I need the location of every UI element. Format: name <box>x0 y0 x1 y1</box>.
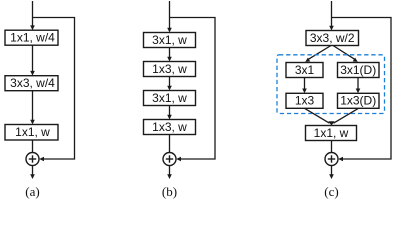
box 1x1, w (c) <box>306 126 357 141</box>
svg-text:(b): (b) <box>162 184 177 199</box>
wire merge right <box>334 108 359 123</box>
wire c-add <box>331 141 333 153</box>
box 3x3, w/4 <box>5 76 58 91</box>
svg-text:3x1: 3x1 <box>295 63 315 77</box>
wire output (a) <box>32 166 34 175</box>
box 1x3(D) <box>338 93 380 108</box>
wire skip connection (c) <box>332 18 391 160</box>
box 1x1, w <box>5 125 58 141</box>
wire a3-add <box>32 140 34 153</box>
box 3x1, w (third) <box>144 91 196 106</box>
wire c-right column <box>357 78 359 90</box>
box 1x3 <box>286 93 323 108</box>
wire input (c) <box>331 1 333 27</box>
svg-text:1x3: 1x3 <box>295 94 315 108</box>
svg-text:3x1, w: 3x1, w <box>152 33 187 47</box>
wire output (b) <box>169 166 171 175</box>
svg-text:1x3, w: 1x3, w <box>152 62 187 76</box>
svg-text:(a): (a) <box>25 184 39 199</box>
box 1x3, w (fourth) <box>144 120 196 135</box>
svg-text:3x1(D): 3x1(D) <box>340 63 376 77</box>
svg-text:1x3, w: 1x3, w <box>152 120 187 134</box>
wire split right <box>333 46 356 60</box>
wire b4-add <box>169 135 171 153</box>
box 1x1, w/4 <box>5 30 58 45</box>
svg-text:1x1, w: 1x1, w <box>15 125 50 139</box>
svg-text:3x3, w/2: 3x3, w/2 <box>310 31 355 45</box>
box 3x1 <box>286 63 323 78</box>
wire input (b) <box>169 1 171 29</box>
wire b2-b3 <box>169 77 171 88</box>
wire a1-a2 <box>32 45 34 72</box>
svg-text:(c): (c) <box>324 184 338 199</box>
wire a2-a3 <box>32 91 34 121</box>
box 3x1, w (first) <box>144 33 196 48</box>
wire split left <box>308 46 332 60</box>
adder (a) <box>26 153 39 166</box>
wire skip connection (a) <box>33 18 75 160</box>
wire b1-b2 <box>169 48 171 59</box>
svg-text:3x1, w: 3x1, w <box>152 91 187 105</box>
svg-text:1x3(D): 1x3(D) <box>340 94 376 108</box>
svg-text:1x1, w/4: 1x1, w/4 <box>10 31 55 45</box>
wire b3-b4 <box>169 106 171 117</box>
svg-text:3x3, w/4: 3x3, w/4 <box>10 76 55 90</box>
adder (c) <box>325 153 338 166</box>
svg-text:1x1, w: 1x1, w <box>314 126 349 140</box>
box 1x3, w (second) <box>144 62 196 77</box>
wire output (c) <box>331 166 333 175</box>
wire skip connection (b) <box>170 18 215 160</box>
wire merge left <box>305 108 330 123</box>
dashed group box <box>277 55 385 114</box>
box 3x3, w/2 <box>306 31 359 46</box>
adder (b) <box>163 153 176 166</box>
box 3x1(D) <box>338 63 380 78</box>
wire c-left column <box>304 78 306 90</box>
wire input (a) <box>32 1 34 27</box>
